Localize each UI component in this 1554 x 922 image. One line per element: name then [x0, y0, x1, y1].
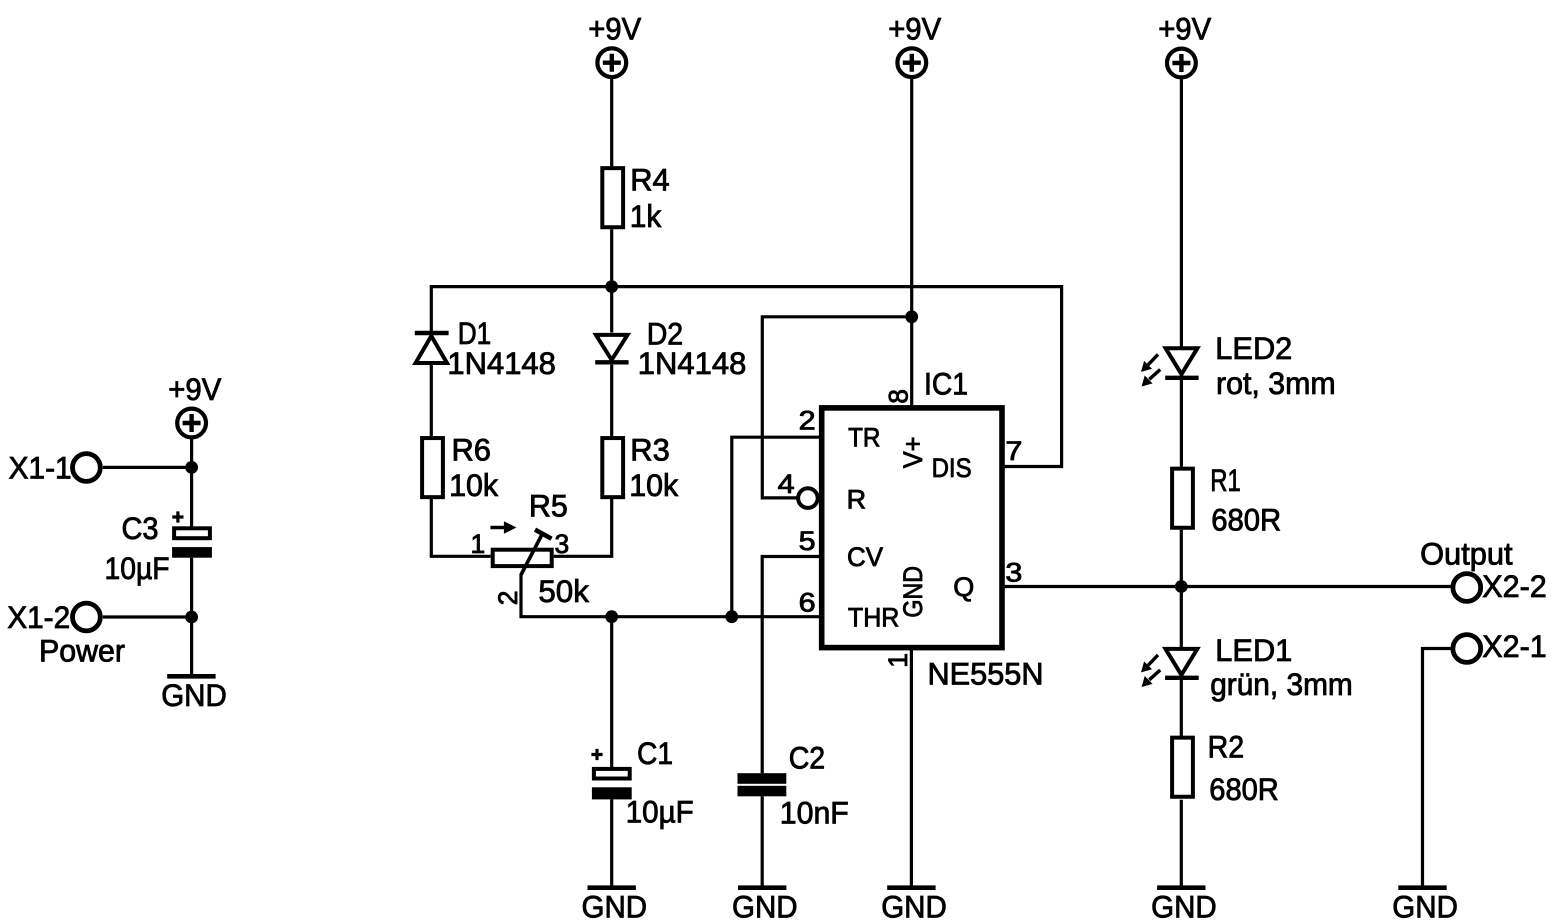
svg-text:Q: Q: [953, 572, 974, 602]
light emission arrows (LED2): [1141, 354, 1160, 386]
svg-text:grün, 3mm: grün, 3mm: [1210, 666, 1353, 702]
wire X1-1 to +9V net: [103, 466, 192, 469]
svg-text:1N4148: 1N4148: [447, 345, 556, 381]
svg-text:+9V: +9V: [1158, 11, 1211, 47]
svg-text:10µF: 10µF: [105, 550, 170, 586]
svg-text:C1: C1: [637, 735, 673, 771]
svg-text:rot, 3mm: rot, 3mm: [1216, 365, 1336, 401]
diode D1 1N4148 (cathode up): [415, 333, 449, 363]
resistor R4: [602, 168, 623, 227]
svg-text:680R: 680R: [1211, 502, 1281, 538]
svg-text:10k: 10k: [449, 467, 498, 503]
ground GND (power input): [161, 676, 227, 713]
svg-text:R4: R4: [630, 162, 670, 198]
svg-text:GND: GND: [898, 566, 928, 618]
light emission arrows (LED1): [1141, 655, 1160, 687]
wire LED2 to R1: [1180, 380, 1183, 467]
svg-text:8: 8: [884, 389, 914, 404]
wire X2-1 to GND: [1423, 649, 1451, 886]
svg-text:1k: 1k: [630, 198, 662, 234]
svg-text:LED2: LED2: [1215, 330, 1292, 366]
svg-text:X2-1: X2-1: [1482, 628, 1547, 664]
svg-text:1: 1: [471, 529, 486, 559]
svg-text:C2: C2: [789, 740, 826, 776]
connector pad X2-2: [1453, 574, 1481, 602]
svg-text:+9V: +9V: [888, 11, 941, 47]
svg-text:3: 3: [555, 529, 570, 559]
svg-text:R3: R3: [630, 432, 670, 468]
svg-text:+9V: +9V: [588, 11, 641, 47]
svg-text:X1-1: X1-1: [9, 449, 72, 485]
power +9V supply symbol (above LED2): [1167, 49, 1196, 78]
wire R1 through output node to LED1: [1180, 530, 1183, 649]
wire R4 to top bus and D2: [610, 229, 613, 332]
resistor R2: [1172, 738, 1193, 797]
ground GND (C2): [732, 888, 798, 922]
wire +9V symbol down to X1-1 node and C3: [190, 438, 193, 527]
ground GND (X2): [1392, 888, 1458, 922]
wire TR pin 2 to THR net: [732, 437, 820, 617]
wire R3 to R5 pin 3: [554, 499, 612, 556]
wire C1 to GND: [610, 799, 613, 885]
svg-text:DIS: DIS: [932, 453, 972, 483]
svg-text:TR: TR: [848, 423, 880, 453]
resistor R6: [422, 438, 443, 497]
svg-text:X1-2: X1-2: [7, 599, 70, 635]
wire CV pin 5 to C2: [762, 557, 819, 774]
junction node R4 / top bus: [605, 280, 618, 293]
wire THR net middle segment: [612, 615, 732, 618]
wire R6 to R5 pin 1: [431, 499, 490, 556]
resistor R1: [1172, 469, 1193, 528]
wire C3 to GND with X1-2 node: [190, 558, 193, 675]
svg-text:10k: 10k: [629, 467, 678, 503]
wire D2 cathode to R3: [610, 365, 613, 436]
wire +9V to R4: [610, 77, 613, 166]
svg-text:Output: Output: [1420, 536, 1513, 572]
potentiometer R5 50k: [490, 521, 551, 575]
junction node GND / X1-2: [185, 611, 198, 624]
IC U1 IC1 NE555N body: [822, 408, 1002, 648]
power +9V supply symbol (above R4): [597, 48, 626, 77]
junction node output / LED divider: [1175, 580, 1188, 593]
svg-text:R6: R6: [452, 432, 492, 468]
connector pad X2-1: [1453, 635, 1481, 663]
resistor R3: [602, 438, 623, 497]
svg-text:Power: Power: [39, 633, 125, 669]
svg-text:10µF: 10µF: [626, 794, 694, 830]
wire reset pin 4 to V+ rail: [762, 317, 911, 498]
svg-text:R2: R2: [1208, 729, 1245, 765]
svg-text:10nF: 10nF: [780, 795, 849, 831]
capacitor C3 (polarized): [172, 511, 212, 557]
svg-text:50k: 50k: [538, 573, 589, 609]
svg-text:2: 2: [799, 406, 816, 436]
ground GND (IC1): [881, 888, 947, 922]
power +9V supply symbol (above IC1): [897, 48, 926, 77]
wire C1 top: [610, 617, 613, 769]
svg-text:LED1: LED1: [1215, 632, 1292, 668]
svg-text:2: 2: [493, 591, 523, 606]
wire C2 to GND: [761, 796, 764, 885]
ground GND (C1): [582, 888, 648, 922]
wire top bus (D1/R4/D2/DIS net): [431, 287, 1061, 467]
svg-text:V+: V+: [898, 437, 928, 469]
svg-text:5: 5: [799, 526, 816, 556]
wire +9V to LED2: [1180, 78, 1183, 348]
wire +9V down to V+ pin 8: [910, 77, 913, 406]
svg-text:680R: 680R: [1209, 771, 1279, 807]
svg-text:THR: THR: [848, 602, 900, 632]
connector pad X1-1: [73, 454, 101, 482]
svg-text:R1: R1: [1210, 462, 1241, 498]
junction node +9V / X1-1: [185, 461, 198, 474]
wire Q pin 3 to output net: [1004, 585, 1453, 588]
inversion bubble pin 4 (R): [798, 488, 818, 508]
capacitor C1 (polarized): [591, 749, 631, 799]
wire D1 anode to R6: [430, 364, 433, 436]
svg-text:CV: CV: [847, 542, 883, 572]
wire GND pin 1: [910, 649, 913, 886]
junction node V+ / reset: [905, 310, 918, 323]
power +9V supply symbol (left): [177, 409, 206, 438]
svg-text:NE555N: NE555N: [928, 656, 1044, 692]
svg-text:6: 6: [799, 588, 816, 618]
svg-text:R5: R5: [529, 487, 568, 523]
wire X1-2 to GND net: [103, 615, 192, 618]
wire R5 wiper down to THR net: [521, 574, 612, 617]
svg-text:1: 1: [883, 653, 913, 668]
ground GND (R2): [1151, 888, 1217, 922]
svg-text:1N4148: 1N4148: [638, 345, 747, 381]
wire R2 to GND: [1180, 800, 1183, 886]
LED LED2 (cathode down): [1165, 348, 1198, 378]
junction node THR / TR: [725, 610, 738, 623]
svg-text:X2-2: X2-2: [1482, 568, 1547, 604]
LED LED1 (cathode down): [1165, 649, 1199, 678]
svg-text:7: 7: [1005, 436, 1022, 466]
svg-text:IC1: IC1: [924, 366, 968, 402]
svg-text:C3: C3: [122, 510, 159, 546]
wire LED1 to R2: [1180, 680, 1183, 737]
connector pad X1-2: [73, 603, 101, 631]
junction node THR / C1: [605, 610, 618, 623]
diode D2 1N4148 (cathode down): [595, 335, 628, 362]
svg-text:3: 3: [1005, 558, 1022, 588]
svg-text:4: 4: [778, 469, 795, 499]
svg-text:+9V: +9V: [168, 371, 221, 407]
wire THR net to pin 6: [732, 615, 820, 618]
svg-text:R: R: [847, 485, 867, 515]
capacitor C2: [738, 773, 787, 796]
